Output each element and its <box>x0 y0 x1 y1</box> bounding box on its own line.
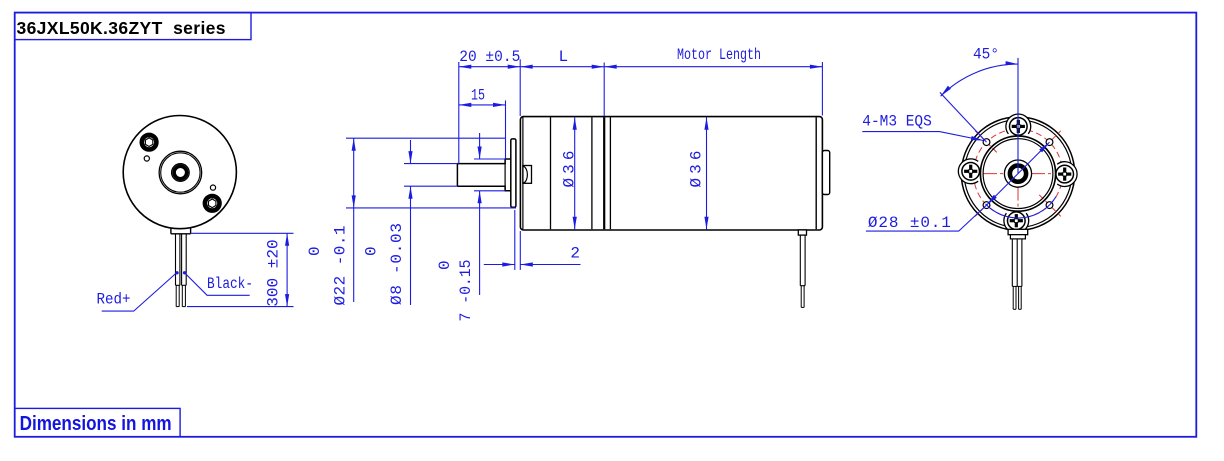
svg-text:L: L <box>558 48 568 66</box>
svg-text:15: 15 <box>471 87 485 105</box>
svg-text:2: 2 <box>570 245 580 263</box>
svg-text:Ø36: Ø36 <box>688 151 706 188</box>
svg-text:Dimensions in mm: Dimensions in mm <box>20 413 172 435</box>
svg-text:0: 0 <box>363 246 381 256</box>
svg-text:0: 0 <box>306 246 324 256</box>
svg-text:Ø36: Ø36 <box>561 151 579 188</box>
svg-text:36JXL50K.36ZYT series: 36JXL50K.36ZYT series <box>17 18 226 38</box>
svg-text:Ø22 -0.1: Ø22 -0.1 <box>331 226 349 306</box>
svg-text:Motor Length: Motor Length <box>677 46 761 64</box>
svg-text:Ø8 -0.03: Ø8 -0.03 <box>388 223 406 305</box>
svg-text:300 ±20: 300 ±20 <box>265 239 283 307</box>
svg-text:Ø28 ±0.1: Ø28 ±0.1 <box>868 214 951 232</box>
svg-text:Black-: Black- <box>207 275 253 293</box>
svg-text:7 -0.15: 7 -0.15 <box>457 260 475 322</box>
svg-text:20 ±0.5: 20 ±0.5 <box>459 48 520 66</box>
svg-text:0: 0 <box>436 260 454 270</box>
svg-text:Red+: Red+ <box>97 291 131 309</box>
svg-text:45°: 45° <box>973 46 999 64</box>
svg-text:4-M3 EQS: 4-M3 EQS <box>862 113 932 131</box>
